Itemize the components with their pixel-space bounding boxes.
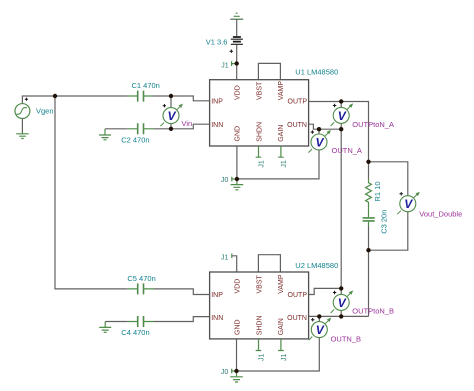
voltmeter OUTPtoN_A [331,103,354,126]
svg-text:VDD: VDD [234,85,241,100]
wire load branch R1 C3 [368,162,370,250]
junction node U1 OUTP [339,99,343,103]
jumper J1 at U2 GAIN [278,339,284,351]
svg-text:J1: J1 [281,160,288,168]
wire voltmeter Vin leads [170,96,172,129]
svg-text:GND: GND [234,319,241,335]
jumper J1 at battery [232,61,235,66]
svg-text:J1: J1 [259,160,266,168]
svg-text:C3 20n: C3 20n [380,210,389,234]
resistor R1 10 [366,179,372,207]
wire battery to U1 VDD [236,19,238,79]
junction node U2 OUTN [339,314,343,318]
generator Vgen [15,98,30,119]
svg-text:J1: J1 [221,62,229,69]
jumper J1 at U1 GAIN [278,146,284,157]
wire voltmeter OUTPtoN_B leads [340,288,342,316]
junction node load top [366,160,370,164]
jumper J0 at U1 GND [232,177,235,182]
svg-text:SHDN: SHDN [256,315,263,335]
svg-text:C1 470n: C1 470n [132,81,160,90]
wire C4 net to U2 INN [105,317,209,322]
svg-text:OUTN_A: OUTN_A [332,146,362,155]
wire U2 VBST-VAMP loop [258,255,280,272]
wire Vgen top to C1 [22,96,127,104]
wire load to Vout_Double loop [369,162,408,250]
svg-text:INN: INN [211,122,223,129]
jumper J1 at U2 SHDN [256,339,262,351]
wire voltmeter OUTPtoN_A leads [340,102,342,130]
wire voltmeter OUTN_A leads [237,129,319,179]
wire U2 OUTP [309,288,342,294]
junction node J1 battery [235,61,239,65]
battery V1 3.6 [231,37,243,44]
op-amp U2 LM48580 [210,272,309,339]
ground at J0 U1 [231,179,244,190]
svg-text:VAMP: VAMP [278,274,285,294]
voltmeter OUTN_A [308,130,331,153]
ground at J0 U2 [230,371,243,382]
battery plus sign [230,50,233,53]
svg-text:SHDN: SHDN [256,122,263,142]
junction node Vin top [169,94,173,98]
voltmeter OUTPtoN_B [331,290,354,313]
svg-text:OUTN: OUTN [287,122,307,129]
ground under Vgen [16,119,29,139]
op-amp U1 LM48580 [210,80,309,146]
jumper J1 at U2 VDD [231,254,233,259]
capacitor C2 470n [128,123,154,134]
wire C1 to U1 INP [154,96,210,101]
svg-text:GND: GND [234,126,241,142]
svg-text:VDD: VDD [234,279,241,294]
wire C2 net to U1 INN [105,124,210,129]
voltmeter Vout_Double [397,192,420,215]
voltmeter Vin [160,104,183,127]
svg-text:VBST: VBST [256,274,263,293]
svg-text:V1 3.6: V1 3.6 [206,37,228,46]
wire vertical Vgen net to channel B [55,96,128,289]
wire C5 to U2 INP [154,289,210,295]
junction node U1 OUTN [339,127,343,131]
svg-text:GAIN: GAIN [278,125,285,142]
svg-text:J1: J1 [221,255,229,262]
junction node load bottom [366,248,370,252]
junction node Vin bottom [169,127,173,131]
jumper J1 at U1 SHDN [256,146,262,157]
junction node U2 OUTP [339,286,343,290]
svg-text:J1: J1 [259,354,266,362]
voltmeter OUTN_B [309,318,332,341]
svg-text:C4 470n: C4 470n [121,328,149,337]
junction node J0 U1 [235,177,239,181]
svg-text:OUTPtoN_A: OUTPtoN_A [352,120,394,129]
svg-text:C5 470n: C5 470n [127,274,155,283]
svg-text:J1: J1 [281,354,288,362]
wire voltmeter OUTN_B leads [237,316,320,371]
wire load bottom to U2 OUTN [368,250,370,316]
junction node Vgen split [53,94,57,98]
wire U2 OUTN [309,315,369,317]
ground top inverted at battery [230,13,243,19]
wire U1 OUTN [309,124,342,129]
capacitor C3 20n [363,206,375,226]
svg-text:Vgen: Vgen [36,107,54,116]
svg-text:J0: J0 [221,177,229,184]
junction node J0 U2 [234,369,238,373]
svg-text:INP: INP [211,292,223,299]
jumper J0 at U2 GND [232,369,235,374]
svg-text:C2 470n: C2 470n [121,135,149,144]
wire U2 GND to J0 [236,339,238,371]
wire U1 OUTP to load [309,102,369,162]
svg-text:OUTP: OUTP [288,292,308,299]
svg-text:U2 LM48580: U2 LM48580 [295,261,338,270]
svg-text:INP: INP [211,99,223,106]
ground at C2 [99,129,111,140]
capacitor C5 470n [128,283,154,294]
svg-text:Vout_Double: Vout_Double [419,210,462,219]
junction node OUTN_B tap [317,314,321,318]
svg-text:OUTPtoN_B: OUTPtoN_B [352,307,394,316]
svg-text:OUTN: OUTN [287,315,307,322]
svg-text:Vin: Vin [182,119,193,128]
svg-text:U1 LM48580: U1 LM48580 [295,68,338,77]
svg-text:VBST: VBST [256,81,263,100]
svg-text:INN: INN [211,315,223,322]
capacitor C4 470n [128,316,154,327]
junction node OUTN_A tap [317,127,321,131]
ground at C4 [99,322,111,333]
capacitor C1 470n [128,91,154,102]
wire U1 VBST-VAMP loop [258,63,280,79]
svg-text:J0: J0 [221,369,229,376]
wire U1 GND to J0 [236,146,238,179]
svg-text:GAIN: GAIN [278,318,285,335]
svg-text:R1 10: R1 10 [373,181,382,201]
svg-text:VAMP: VAMP [278,81,285,101]
wire U2 VDD stub [232,256,237,272]
svg-text:OUTN_B: OUTN_B [331,335,361,344]
wire bridge U1 OUTN to U2 OUTP [340,129,342,288]
svg-text:OUTP: OUTP [288,99,308,106]
